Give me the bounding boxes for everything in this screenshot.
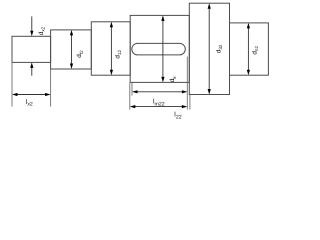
dimension d_32 line	[208, 3, 211, 94]
keyway slot	[132, 43, 186, 55]
shaft section S2	[51, 30, 92, 69]
shaft section S1	[12, 36, 51, 62]
extension lines for l_x2	[12, 62, 51, 106]
svg-text:dk: dk	[169, 76, 177, 83]
svg-text:lm22: lm22	[153, 99, 165, 108]
dimension l_22	[130, 105, 188, 108]
dimension d_f2 line	[70, 30, 73, 69]
dimension d_x2 lower arrow	[30, 62, 33, 75]
shaft section S5	[189, 3, 229, 94]
dimension d_x2 upper arrow	[30, 16, 33, 36]
extension lines for l_m22 and l_22	[130, 57, 190, 110]
svg-text:d32: d32	[215, 44, 223, 53]
svg-text:dx2: dx2	[38, 26, 46, 35]
svg-text:d12: d12	[114, 50, 122, 59]
dimension d_n2 line	[247, 23, 250, 75]
shaft section S4	[130, 15, 189, 82]
svg-text:df2: df2	[76, 50, 84, 58]
svg-text:dn2: dn2	[251, 46, 259, 55]
dimension l_m22	[132, 90, 187, 93]
shaft section S3	[91, 22, 130, 75]
svg-text:lx2: lx2	[26, 99, 33, 108]
shaft section S6	[230, 23, 269, 75]
dimension l_x2	[12, 93, 51, 96]
dimension d_k line	[161, 15, 164, 82]
svg-text:l22: l22	[174, 112, 181, 121]
dimension d_12 line	[110, 22, 113, 75]
